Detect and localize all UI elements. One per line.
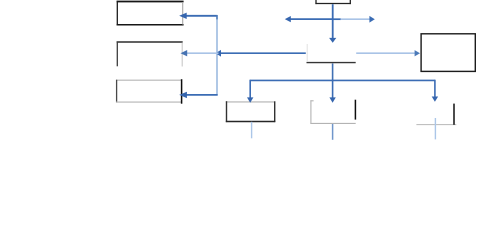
box B9 bottom-right (partial) [416,104,456,125]
arrow C1 top-box down to center node [329,4,336,43]
box B8 bottom-middle [310,100,355,124]
wire C8 center node down [332,64,334,81]
box B1 top-left [117,1,184,26]
arrow C7 center node to box B6 [356,50,420,56]
arrow C4 center node to vertical line [216,50,306,57]
wire C12 through box B9 [434,118,436,139]
box B4 top-center (cut off at image top) [315,0,351,4]
arrow C6 into box B3 [179,92,218,98]
arrow C9c drop to box B9 [432,80,438,102]
wire C11 below box B8 [332,124,334,140]
arrow C9a drop to box B7 [247,80,253,103]
wire C10 below box B7 [251,122,253,139]
box B6 right [421,34,475,72]
wire C3v vertical light line x217 [216,15,218,95]
box B2 mid-left (open bottom) [117,41,183,66]
arrow C2R horizontal right arrow at y19 [333,16,375,23]
arrow C3 elbow into box B1 [179,13,217,19]
arrow C5 light arrow into box B2 [181,50,219,56]
arrow C2L horizontal left arrow at y19 [285,16,333,22]
node B5 center underline [307,62,356,64]
box B7 bottom-left [226,101,275,122]
wire C9 distributor horizontal [250,79,435,81]
arrow C9b drop to box B8 [329,80,335,103]
box B3 lower-left [116,79,182,104]
node B5 faint left edge [306,44,308,62]
